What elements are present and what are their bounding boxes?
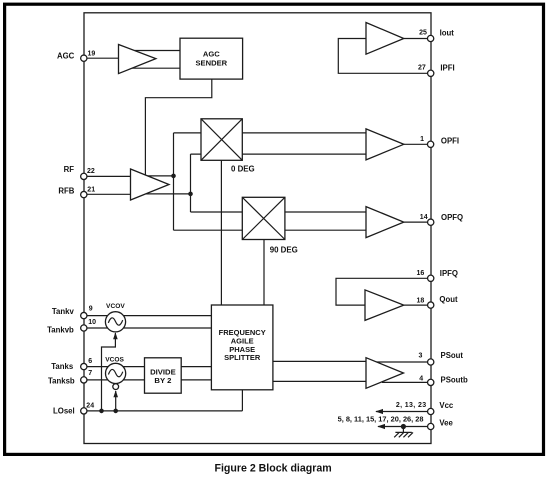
svg-text:Qout: Qout [439,295,458,304]
wire Tankvb line to splitter [84,327,211,329]
junction node A [171,174,176,179]
svg-text:VCOS: VCOS [105,357,124,364]
svg-text:OPFQ: OPFQ [441,213,463,222]
wire mixer M2 LO input [263,240,265,306]
VCOS select bubble [113,384,119,390]
wire Vcc with arrow [375,409,427,414]
svg-text:16: 16 [417,270,425,277]
wire PSout amp to pin 4 [382,381,428,383]
wire AGC amp to AGC sender (top) [135,50,181,52]
wire node B down to mixer M2 top input [191,194,367,212]
svg-text:5, 8, 11, 15, 17, 20, 26, 28: 5, 8, 11, 15, 17, 20, 26, 28 [338,414,424,423]
label VCOS [105,357,124,364]
pin 19 AGC [57,50,95,61]
wire Vee with arrow [377,424,427,429]
wire RF amp output bottom [146,193,191,195]
wire IPFQ pin 16 to Qout amp input [336,278,428,305]
svg-text:24: 24 [86,402,94,409]
svg-text:OPFI: OPFI [441,137,459,146]
svg-text:7: 7 [88,370,92,377]
svg-text:18: 18 [417,297,425,304]
junction node B [188,192,193,197]
oscillator VCOS [106,363,126,383]
FREQUENCY AGILE PHASE SPLITTER box [211,305,273,390]
pin 1 OPFI [420,136,459,147]
op-amp A7 PSout amplifier [366,358,404,389]
svg-text:14: 14 [420,214,428,221]
svg-text:IPFI: IPFI [440,63,454,72]
caption Figure 2 Block diagram [215,462,332,474]
DIVIDE BY 2 box [145,358,182,393]
svg-text:3: 3 [418,352,422,359]
pin 24 LOsel [53,402,94,415]
svg-text:BY 2: BY 2 [154,376,171,385]
label VCOV [106,303,125,310]
wire RF amp output top [148,175,174,177]
svg-text:PSout: PSout [441,351,464,360]
label 0 DEG [231,164,255,173]
pin 4 PSoutb [419,375,468,385]
wire AGC amp to AGC sender (bottom) [132,67,180,69]
svg-text:Iout: Iout [440,28,455,37]
op-amp A1 AGC amplifier [119,45,156,74]
mixer M1 (0 DEG) [201,119,242,161]
op-amp A6 Qout buffer [365,290,404,321]
arrowhead into VCOV [113,332,118,339]
svg-text:SPLITTER: SPLITTER [224,353,261,362]
svg-text:1: 1 [420,136,424,143]
svg-text:SENDER: SENDER [195,58,227,67]
wire node A up to mixer M1 top input [174,133,367,176]
op-amp A5 OPFQ amplifier [366,207,404,238]
svg-text:2, 13, 23: 2, 13, 23 [396,402,427,409]
wire AGC input [84,57,119,59]
svg-text:Tankvb: Tankvb [47,325,74,334]
wire PSout amp to pin 3 [375,361,428,363]
mixer M2 (90 DEG) [242,197,285,239]
wire Iout amp output to pin 25 [404,38,428,40]
svg-text:RF: RF [64,165,75,174]
wire node B up to mixer M1 bottom input [191,154,367,194]
pin 22 RF [64,165,95,179]
IC boundary box [84,13,431,444]
wire OPFQ amp output to pin 14 [404,221,428,223]
wire LOsel branch to VCOS select arrow [115,391,117,411]
op-amp A4 OPFI amplifier [366,129,404,160]
svg-text:PSoutb: PSoutb [441,375,469,384]
svg-text:10: 10 [88,319,96,326]
junction dot on Vee line [401,424,406,433]
junction dot on LOsel line (left) [99,409,104,414]
ground symbol [394,432,413,437]
op-amp A3 Iout buffer [366,23,404,55]
pin Vcc [396,401,454,415]
wire mixer M1 LO input [220,160,222,305]
arrowhead into VCOS bubble [113,390,118,397]
svg-text:IPFQ: IPFQ [440,269,458,278]
svg-text:Vee: Vee [439,419,453,428]
pin 25 Iout [419,28,454,41]
pin 3 PSout [418,351,463,365]
pin 7 Tanksb [48,370,92,386]
wire Tanksb line to divider [84,379,145,381]
svg-text:25: 25 [419,30,427,37]
pin Vee [338,414,454,429]
svg-text:LOsel: LOsel [53,406,75,415]
wire LOsel to splitter [87,390,242,411]
svg-text:6: 6 [88,358,92,365]
svg-text:90 DEG: 90 DEG [270,245,298,254]
wire splitter output to PSout amp bottom [273,380,366,382]
pin 16 IPFQ [417,269,459,281]
pin 21 RFB [58,186,95,197]
wire divider to splitter top [181,366,211,368]
svg-text:AGC: AGC [203,49,220,58]
svg-text:RFB: RFB [58,187,74,196]
svg-text:21: 21 [87,186,95,193]
svg-text:Tanksb: Tanksb [48,377,75,386]
wire RF input [84,175,131,177]
svg-text:27: 27 [418,64,426,71]
svg-text:Tanks: Tanks [51,362,74,371]
svg-text:19: 19 [88,50,96,57]
pin 18 Qout [417,295,458,308]
svg-text:Tankv: Tankv [52,307,75,316]
wire divider to splitter bottom [181,379,211,381]
wire Qout amp output to pin 18 [404,304,428,306]
svg-text:AGC: AGC [57,52,75,61]
wire LOsel branch to VCOV select arrow [102,333,116,411]
wire IPFI pin 27 to Iout amp input [338,39,427,74]
wire splitter output to PSout amp top [273,360,366,362]
pin 14 OPFQ [420,213,463,226]
pin 27 IPFI [418,63,455,76]
wire Tanks line to divider [84,366,145,368]
pin 9 Tankv [52,306,93,319]
oscillator VCOV [105,312,125,332]
svg-text:Figure 2 Block diagram: Figure 2 Block diagram [215,462,332,474]
AGC SENDER box [180,38,243,79]
svg-text:Vcc: Vcc [439,401,454,410]
svg-text:4: 4 [419,375,423,382]
wire OPFI amp output to pin 1 [404,143,428,145]
wire Tankv line to splitter [84,315,211,317]
svg-text:22: 22 [87,168,95,175]
pin 6 Tanks [51,358,92,371]
label 90 DEG [270,245,298,254]
wire node A down to mixer M2 bottom input [174,176,367,230]
junction dot on LOsel line (right) [113,409,118,414]
svg-text:VCOV: VCOV [106,303,125,310]
wire RFB input [84,193,131,195]
svg-text:9: 9 [89,306,93,313]
svg-text:0 DEG: 0 DEG [231,164,255,173]
pin 10 Tankvb [47,319,96,334]
wire AGC sender down to RF amp [145,79,211,175]
op-amp A2 RF amplifier [131,169,170,200]
